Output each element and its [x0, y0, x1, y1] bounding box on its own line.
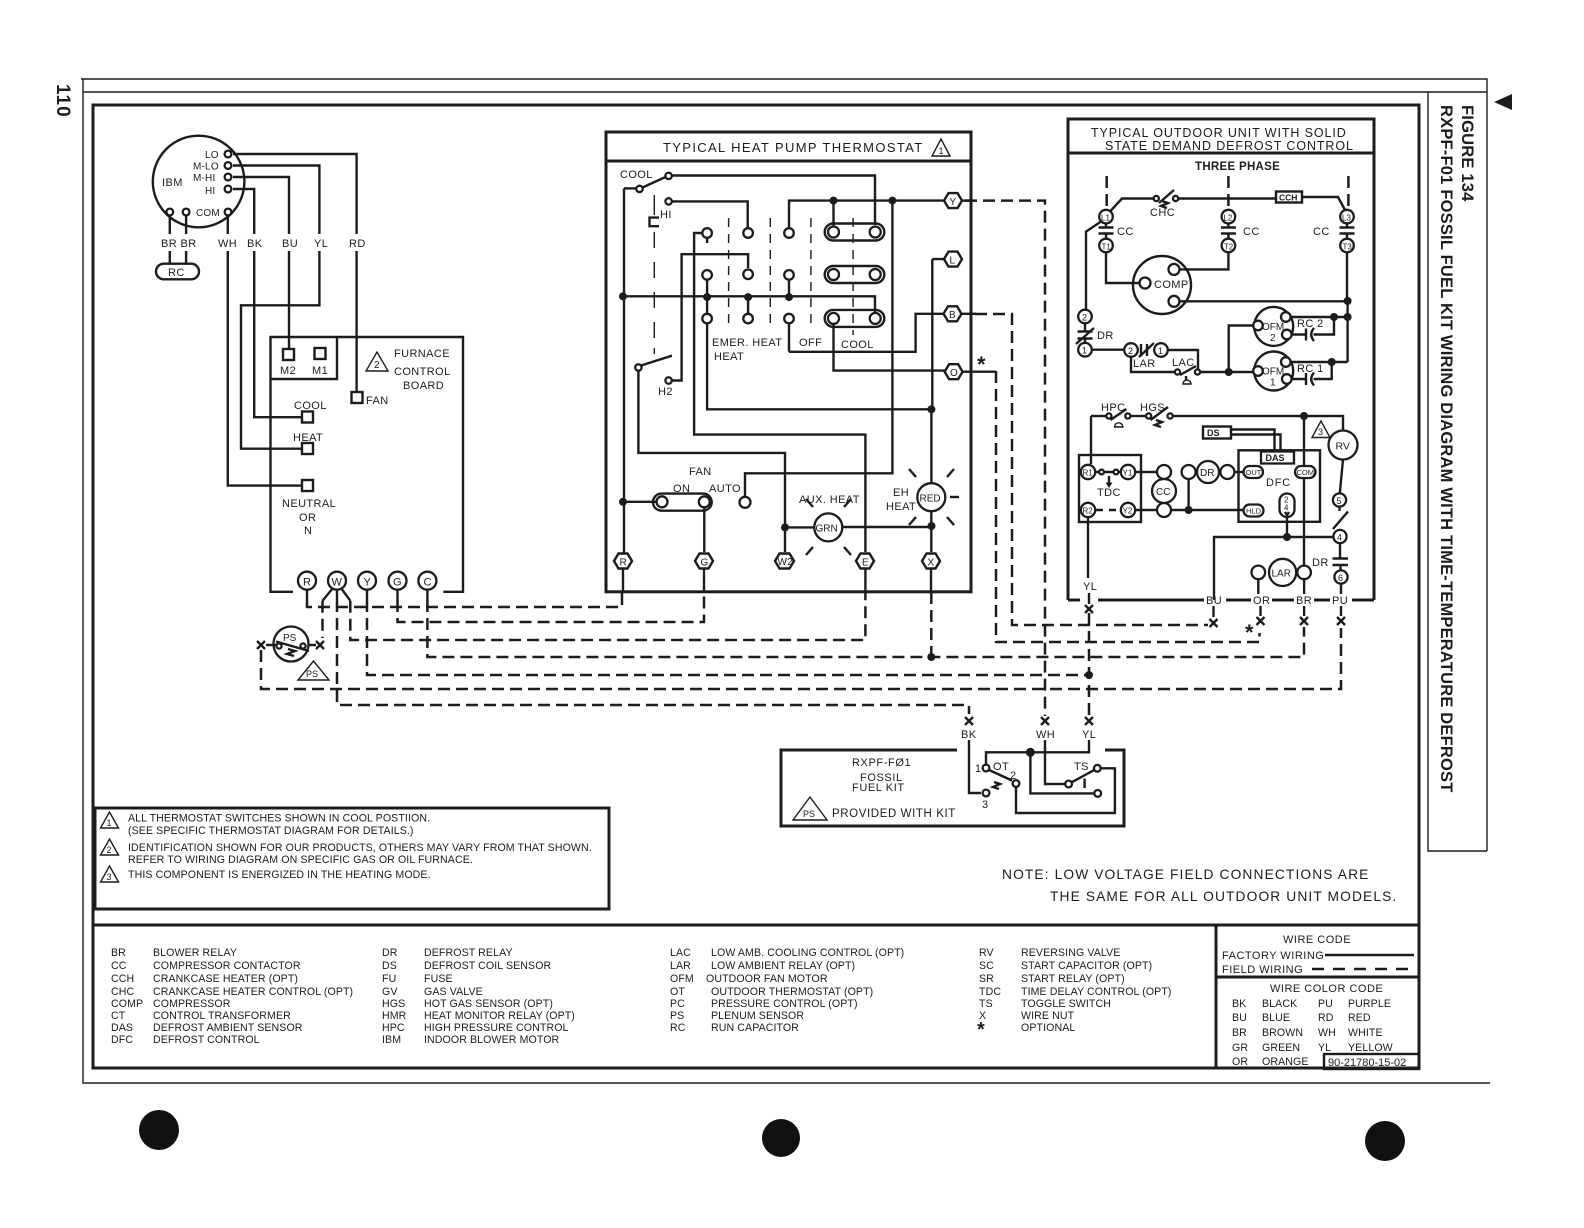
- svg-text:1: 1: [1270, 378, 1276, 389]
- wire bus to fan-on: [624, 501, 656, 503]
- svg-text:OT: OT: [993, 761, 1009, 773]
- svg-text:RED: RED: [920, 494, 941, 505]
- svg-text:*: *: [1245, 620, 1254, 645]
- 24v pill: [1280, 494, 1295, 518]
- sensor switch HGS: [1146, 413, 1151, 418]
- outdoor unit box: [1068, 119, 1374, 600]
- svg-text:OFM: OFM: [670, 973, 694, 985]
- svg-text:HI: HI: [205, 186, 215, 197]
- DS twin wires to DAS: [1231, 430, 1281, 453]
- wire C bus to BR via X junction: [426, 590, 428, 600]
- switch blade 5-4: [1333, 507, 1348, 529]
- GRN light rays: [806, 499, 851, 555]
- oval wiper 3: [825, 310, 885, 327]
- terminal T2: [1222, 239, 1236, 253]
- capacitor DR right: [1333, 543, 1349, 570]
- svg-text:C: C: [424, 577, 432, 589]
- LAR NC contact: [1139, 343, 1154, 357]
- punch hole 2: [762, 1119, 800, 1157]
- svg-text:DAS: DAS: [111, 1022, 133, 1034]
- svg-text:THIS COMPONENT IS ENERGIZED IN: THIS COMPONENT IS ENERGIZED IN THE HEATI…: [128, 869, 431, 881]
- svg-text:IDENTIFICATION SHOWN FOR OUR P: IDENTIFICATION SHOWN FOR OUR PRODUCTS, O…: [128, 842, 592, 854]
- BK entry: wire nut and label: [965, 717, 973, 725]
- svg-text:GAS VALVE: GAS VALVE: [424, 986, 483, 998]
- junction fan-on: [619, 498, 627, 506]
- svg-text:OUTDOOR FAN MOTOR: OUTDOOR FAN MOTOR: [706, 973, 828, 985]
- wire DR to OUT: [1234, 471, 1243, 473]
- wire M-HI to BU column: [233, 177, 289, 349]
- wire Y2 to CC to HLD: [1135, 509, 1243, 511]
- junction pill: [1283, 533, 1291, 541]
- svg-text:IBM: IBM: [162, 177, 183, 189]
- wire OFF row C down to B hexagon: [789, 314, 945, 352]
- svg-text:4: 4: [1337, 533, 1342, 543]
- terminal COM: [225, 209, 232, 216]
- capacitor DR left: [1078, 323, 1093, 343]
- wire LAR1 to LAC right: [1168, 350, 1198, 369]
- wire LAR left to OR exit: [1257, 579, 1259, 594]
- terminal OUT: [1244, 466, 1264, 478]
- svg-text:PC: PC: [670, 998, 685, 1010]
- svg-text:TYPICAL HEAT PUMP THERMOSTAT: TYPICAL HEAT PUMP THERMOSTAT: [663, 140, 924, 155]
- wire CHC to CCH: [1179, 197, 1277, 199]
- note triangle 1: [101, 812, 119, 828]
- TDC contact R1-Y1: [1099, 470, 1104, 475]
- terminal L2: [1222, 210, 1236, 224]
- svg-text:2: 2: [1128, 346, 1133, 356]
- svg-text:1: 1: [107, 818, 112, 828]
- svg-text:COM: COM: [1297, 468, 1315, 477]
- svg-text:BROWN: BROWN: [1262, 1027, 1303, 1039]
- junction COM column: [1300, 412, 1308, 420]
- svg-text:NOTE: LOW VOLTAGE FIELD CONNEC: NOTE: LOW VOLTAGE FIELD CONNECTIONS ARE: [1002, 867, 1369, 882]
- svg-text:THREE PHASE: THREE PHASE: [1195, 161, 1280, 173]
- YL exit label: [1082, 579, 1098, 592]
- svg-text:FUEL KIT: FUEL KIT: [852, 782, 905, 794]
- svg-text:PU: PU: [1318, 998, 1333, 1010]
- svg-text:DR: DR: [1097, 330, 1114, 342]
- YL entry: wire nut and label: [1085, 717, 1093, 725]
- wire COOL pivot to left bus: [624, 187, 636, 189]
- furnace control board box: [271, 337, 464, 592]
- defrost relay DR coil: [1182, 465, 1196, 479]
- svg-text:M-HI: M-HI: [193, 173, 215, 184]
- fan motor OFM1: [1254, 352, 1293, 391]
- svg-text:BR: BR: [1232, 1027, 1247, 1039]
- svg-text:RV: RV: [979, 947, 995, 959]
- svg-text:SR: SR: [979, 973, 994, 985]
- wire BR right: [185, 215, 187, 263]
- svg-text:G: G: [393, 577, 402, 589]
- junction DR coil riser: [1185, 506, 1193, 514]
- svg-text:5: 5: [1337, 496, 1342, 506]
- wire LAR2 down to LAC: [1131, 357, 1175, 372]
- svg-text:DS: DS: [1207, 428, 1220, 438]
- wire code box divider: [1216, 925, 1419, 1068]
- wire YL into kit to OT-1 bus: [986, 740, 1089, 765]
- svg-text:DFC: DFC: [111, 1034, 133, 1046]
- svg-text:4: 4: [1284, 504, 1289, 513]
- svg-text:INDOOR BLOWER MOTOR: INDOOR BLOWER MOTOR: [424, 1034, 560, 1046]
- svg-text:3: 3: [107, 872, 112, 882]
- relay contact LAR circled 1: [1154, 343, 1168, 357]
- svg-text:W: W: [332, 577, 343, 589]
- note text low voltage: [1002, 867, 1397, 904]
- terminal HLD: [1244, 505, 1264, 517]
- svg-text:RC: RC: [670, 1022, 686, 1034]
- svg-text:TDC: TDC: [1097, 487, 1121, 499]
- svg-text:HEAT: HEAT: [714, 351, 744, 363]
- rotated figure title text: [1437, 105, 1476, 793]
- wire COOL contact to oval1 right: [672, 176, 875, 226]
- terminal circled 4: [1333, 530, 1346, 543]
- svg-text:M1: M1: [312, 365, 328, 377]
- svg-text:AUTO: AUTO: [709, 483, 741, 495]
- wire X below box to C bus: [930, 592, 933, 653]
- svg-text:2: 2: [107, 845, 112, 855]
- terminal hexagon X: [922, 554, 940, 569]
- svg-text:CRANKCASE HEATER CONTROL (OPT): CRANKCASE HEATER CONTROL (OPT): [153, 986, 353, 998]
- svg-text:R: R: [620, 558, 627, 569]
- svg-text:TDC: TDC: [979, 986, 1001, 998]
- svg-text:OR: OR: [1253, 595, 1270, 607]
- svg-text:BU: BU: [282, 238, 298, 250]
- svg-text:PROVIDED WITH KIT: PROVIDED WITH KIT: [832, 808, 956, 820]
- ovals mechanical link dashes: [852, 218, 854, 335]
- svg-text:COMPRESSOR CONTACTOR: COMPRESSOR CONTACTOR: [153, 960, 301, 972]
- terminal L1: [1099, 210, 1113, 224]
- terminal T1: [1099, 239, 1113, 253]
- svg-text:DFC: DFC: [1266, 477, 1291, 489]
- svg-text:W2: W2: [778, 557, 794, 568]
- wire HPC to R1: [1090, 416, 1092, 464]
- arrow marker top right: [1494, 94, 1512, 110]
- OT squiggle: [993, 782, 1000, 789]
- CC contactor L1-T1: [1099, 223, 1114, 238]
- svg-text:CCH: CCH: [1279, 193, 1297, 203]
- svg-text:BLOWER RELAY: BLOWER RELAY: [153, 947, 237, 959]
- svg-text:H2: H2: [658, 386, 673, 398]
- svg-text:3: 3: [982, 799, 989, 811]
- terminal Y: [358, 572, 376, 590]
- wire W split left branch to PS: [323, 588, 334, 601]
- relay contact LAR circled 2: [1124, 343, 1138, 357]
- svg-text:COOL: COOL: [294, 400, 327, 412]
- TDC dashed R2-Y2: [1096, 509, 1116, 511]
- svg-text:DR: DR: [1312, 557, 1329, 569]
- svg-text:YL: YL: [314, 238, 328, 250]
- svg-text:L2: L2: [1223, 214, 1232, 223]
- svg-text:HPC: HPC: [382, 1022, 405, 1034]
- junction X column on C bus: [927, 653, 935, 661]
- wire BK into kit to OT-3: [969, 740, 981, 793]
- TS blade: [1072, 770, 1095, 782]
- wire nut x right of PS: [316, 641, 324, 649]
- svg-text:LAR: LAR: [1133, 358, 1156, 370]
- wire DR to LAR: [1092, 349, 1125, 351]
- OR stub and wire nut: [1259, 606, 1261, 616]
- PS contacts: [276, 643, 281, 648]
- terminal circled 1 (DR bottom): [1078, 343, 1092, 357]
- svg-text:B: B: [949, 310, 956, 321]
- svg-text:R1: R1: [1083, 469, 1094, 478]
- wire HGS to RV: [1173, 416, 1343, 431]
- terminal T3: [1340, 239, 1354, 253]
- terminal hexagon E: [856, 554, 874, 569]
- svg-text:FURNACE: FURNACE: [394, 348, 450, 360]
- capacitor RC: [156, 264, 199, 280]
- svg-text:BR BR: BR BR: [161, 238, 197, 250]
- wire row C emer column down to L/RED column: [707, 323, 931, 409]
- legend separator line: [93, 924, 1419, 927]
- junction oval1 column: [830, 197, 838, 205]
- svg-text:WHITE: WHITE: [1348, 1027, 1383, 1039]
- terminal G: [389, 572, 407, 590]
- svg-text:BLACK: BLACK: [1262, 998, 1297, 1010]
- wire color labels row: [160, 234, 370, 251]
- svg-text:HGS: HGS: [382, 998, 405, 1010]
- wire M-LO to YL column: [233, 166, 319, 449]
- svg-text:WH: WH: [218, 238, 237, 250]
- wire G bus to thermostat G: [396, 590, 398, 600]
- svg-text:BK: BK: [961, 729, 977, 741]
- svg-text:GRN: GRN: [816, 524, 838, 535]
- svg-text:YELLOW: YELLOW: [1348, 1042, 1393, 1054]
- wire H2 contact riser to heat bracket: [672, 254, 748, 380]
- svg-text:COOL: COOL: [841, 339, 874, 351]
- svg-text:PLENUM SENSOR: PLENUM SENSOR: [711, 1010, 804, 1022]
- svg-text:L: L: [950, 256, 956, 267]
- RED light rays: [909, 469, 959, 525]
- svg-text:GV: GV: [382, 986, 398, 998]
- CHC contact: [1154, 196, 1159, 201]
- terminal R: [298, 572, 316, 590]
- EMER column stubs: [706, 238, 708, 315]
- junction L column / row C wire: [927, 405, 935, 413]
- svg-text:R: R: [303, 577, 311, 589]
- TS off tick: [1083, 779, 1085, 789]
- pressure switch HPC: [1106, 413, 1111, 418]
- svg-text:HMR: HMR: [382, 1010, 407, 1022]
- terminal hexagon B: [944, 306, 962, 321]
- svg-text:PS: PS: [306, 669, 318, 679]
- svg-text:T3: T3: [1343, 243, 1353, 252]
- mechanical link dashes EMER/HEAT: [729, 218, 811, 330]
- svg-text:L1: L1: [1101, 214, 1110, 223]
- svg-text:1: 1: [1158, 346, 1163, 356]
- svg-text:OFM: OFM: [1262, 367, 1284, 378]
- wire nut x YL: [1085, 605, 1093, 613]
- switch LAC: [1175, 369, 1180, 374]
- wire OFM2 top to vertical: [1291, 316, 1348, 318]
- terminal C: [418, 572, 436, 590]
- oval wiper 1: [825, 224, 885, 241]
- thermostat box: [606, 132, 971, 592]
- wire 24v pill to line: [1286, 517, 1288, 537]
- svg-text:FIELD WIRING: FIELD WIRING: [1222, 964, 1303, 976]
- junction bus: [619, 292, 627, 300]
- svg-text:BR: BR: [111, 947, 126, 959]
- svg-text:OR: OR: [1232, 1056, 1248, 1068]
- svg-text:FACTORY WIRING: FACTORY WIRING: [1222, 950, 1324, 962]
- svg-text:OUTDOOR THERMOSTAT (OPT): OUTDOOR THERMOSTAT (OPT): [711, 986, 873, 998]
- WH entry: wire nut and label: [1041, 717, 1049, 725]
- wire LO to RD column: [233, 154, 357, 392]
- wire COM to WH column / neutral: [228, 216, 301, 486]
- wire RED to X hexagon: [930, 511, 932, 552]
- svg-text:CCH: CCH: [111, 973, 134, 985]
- COMP terminal top: [1169, 264, 1180, 275]
- terminal Y2: [1121, 503, 1135, 517]
- svg-text:FUSE: FUSE: [424, 973, 453, 985]
- junction T3/comp: [1344, 297, 1352, 305]
- svg-text:Y2: Y2: [1123, 507, 1133, 516]
- svg-text:HOT GAS SENSOR (OPT): HOT GAS SENSOR (OPT): [424, 998, 553, 1010]
- wire HI to BK column: [233, 189, 301, 417]
- svg-text:COMP: COMP: [1154, 279, 1189, 291]
- svg-text:DR: DR: [382, 947, 398, 959]
- terminal W: [328, 572, 346, 590]
- terminal L3: [1340, 210, 1354, 224]
- BU stub and wire nut: [1212, 606, 1214, 617]
- indicator light GRN: [814, 513, 842, 541]
- wire R2 down to YL exit: [1087, 517, 1089, 578]
- svg-text:HEAT: HEAT: [886, 501, 916, 513]
- relay LAR bottom: [1269, 559, 1296, 586]
- svg-text:BU: BU: [1206, 595, 1222, 607]
- svg-text:LAC: LAC: [1172, 357, 1195, 369]
- svg-text:PURPLE: PURPLE: [1348, 998, 1391, 1010]
- HI bimetal dashed link with step: [653, 195, 655, 354]
- wire LAR right to BR exit: [1303, 579, 1305, 594]
- svg-text:CT: CT: [111, 1010, 126, 1022]
- OT blade: [989, 770, 1012, 781]
- svg-text:LAR: LAR: [1272, 569, 1291, 580]
- svg-text:RC: RC: [168, 267, 185, 279]
- svg-text:CHC: CHC: [1150, 207, 1175, 219]
- svg-text:TS: TS: [1074, 761, 1089, 773]
- svg-text:START CAPACITOR (OPT): START CAPACITOR (OPT): [1021, 960, 1152, 972]
- junction GRN line / X column: [928, 522, 936, 530]
- svg-text:OPTIONAL: OPTIONAL: [1021, 1022, 1075, 1034]
- svg-text:*: *: [977, 352, 986, 377]
- svg-text:M-LO: M-LO: [193, 162, 219, 173]
- svg-text:TOGGLE SWITCH: TOGGLE SWITCH: [1021, 998, 1111, 1010]
- L hexagon wire: [932, 259, 944, 409]
- svg-text:T2: T2: [1224, 243, 1234, 252]
- mode switch contact column EMER: [702, 228, 712, 238]
- svg-text:BU: BU: [1232, 1012, 1247, 1024]
- svg-text:(SEE SPECIFIC THERMOSTAT DIAGR: (SEE SPECIFIC THERMOSTAT DIAGRAM FOR DET…: [128, 825, 414, 837]
- wire B to BU bus: [975, 314, 1208, 625]
- svg-text:DAS: DAS: [1266, 453, 1285, 463]
- svg-text:3: 3: [1318, 427, 1323, 437]
- svg-text:DR: DR: [1200, 468, 1214, 479]
- svg-text:PS: PS: [670, 1010, 684, 1022]
- svg-text:OT: OT: [670, 986, 685, 998]
- svg-text:WH: WH: [1036, 729, 1055, 741]
- fan motor OFM2: [1254, 307, 1293, 346]
- svg-text:GREEN: GREEN: [1262, 1042, 1300, 1054]
- svg-text:DS: DS: [382, 960, 397, 972]
- wire oval3 left to O hexagon: [834, 324, 945, 371]
- wire L1 branch to DR: [1086, 222, 1101, 311]
- svg-text:DEFROST COIL SENSOR: DEFROST COIL SENSOR: [424, 960, 552, 972]
- mode switch contact column HEAT: [743, 228, 753, 238]
- svg-text:G: G: [701, 558, 709, 569]
- svg-text:WIRE CODE: WIRE CODE: [1283, 934, 1351, 946]
- svg-text:ALL THERMOSTAT SWITCHES SHOWN: ALL THERMOSTAT SWITCHES SHOWN IN COOL PO…: [128, 813, 430, 825]
- mode switch contact column OFF: [784, 228, 794, 238]
- terminal NEUTRAL: [302, 480, 313, 491]
- wire T3 down: [1346, 252, 1349, 362]
- svg-text:R2: R2: [1083, 507, 1094, 516]
- wire COM column: [1303, 416, 1305, 566]
- oval wiper 2: [825, 266, 885, 283]
- svg-text:RED: RED: [1348, 1012, 1371, 1024]
- svg-text:FAN: FAN: [689, 466, 712, 478]
- svg-text:OFF: OFF: [799, 337, 822, 349]
- svg-text:2: 2: [1010, 770, 1017, 782]
- terminal R1: [1081, 465, 1095, 479]
- svg-text:RXPF-FØ1: RXPF-FØ1: [852, 757, 911, 769]
- terminal hexagon G: [695, 554, 713, 569]
- drawing number box: [1324, 1054, 1419, 1069]
- svg-text:LOW AMBIENT RELAY (OPT): LOW AMBIENT RELAY (OPT): [711, 960, 855, 972]
- svg-text:YL: YL: [1083, 581, 1097, 593]
- wire fan pill right to G hexagon: [703, 507, 705, 552]
- svg-text:CC: CC: [1117, 226, 1134, 238]
- wire COMP bottom to right vertical: [1180, 300, 1348, 302]
- CHC wire from L1: [1110, 199, 1153, 212]
- note triangle 3: [101, 866, 119, 882]
- motor terminal BR1: [166, 209, 173, 216]
- svg-text:BK: BK: [1232, 998, 1246, 1010]
- svg-text:WIRE COLOR CODE: WIRE COLOR CODE: [1270, 983, 1383, 995]
- wire row A emer to left riser: [694, 233, 865, 552]
- terminal FAN: [352, 392, 363, 403]
- svg-text:E: E: [862, 558, 869, 569]
- svg-text:FAN: FAN: [366, 395, 389, 407]
- outer page frame: [81, 79, 1490, 1083]
- junction Y bus / YL column: [1085, 671, 1093, 679]
- terminal HI: [225, 186, 232, 193]
- svg-text:Y: Y: [950, 197, 957, 208]
- svg-text:TYPICAL OUTDOOR UNIT WITH SOLI: TYPICAL OUTDOOR UNIT WITH SOLID: [1091, 126, 1347, 140]
- wire CCH to L3: [1302, 197, 1345, 210]
- wire WH into kit to TS common: [1045, 740, 1065, 784]
- terminal hexagon L: [944, 252, 962, 267]
- svg-text:1: 1: [939, 146, 944, 156]
- svg-text:PS: PS: [803, 809, 815, 819]
- svg-text:RV: RV: [1336, 441, 1350, 453]
- svg-text:HLD: HLD: [1246, 507, 1262, 516]
- PS triangle kit: [793, 797, 827, 820]
- AUTO contact: [740, 497, 751, 508]
- svg-text:M2: M2: [280, 365, 296, 377]
- terminal hexagon Y: [944, 193, 962, 208]
- wire LAC to OFM1 with OFM2 branch: [1200, 371, 1253, 373]
- svg-text:HI: HI: [660, 209, 672, 221]
- junction auto column: [888, 197, 896, 205]
- svg-text:DEFROST AMBIENT SENSOR: DEFROST AMBIENT SENSOR: [153, 1022, 303, 1034]
- junction GRN tap: [781, 523, 789, 531]
- OT contact 2: [1013, 780, 1020, 787]
- M2 M1 sub-box: [271, 337, 338, 379]
- svg-text:CRANKCASE HEATER (OPT): CRANKCASE HEATER (OPT): [153, 973, 298, 985]
- svg-text:6: 6: [1338, 573, 1343, 583]
- main drawing border: [93, 105, 1419, 1068]
